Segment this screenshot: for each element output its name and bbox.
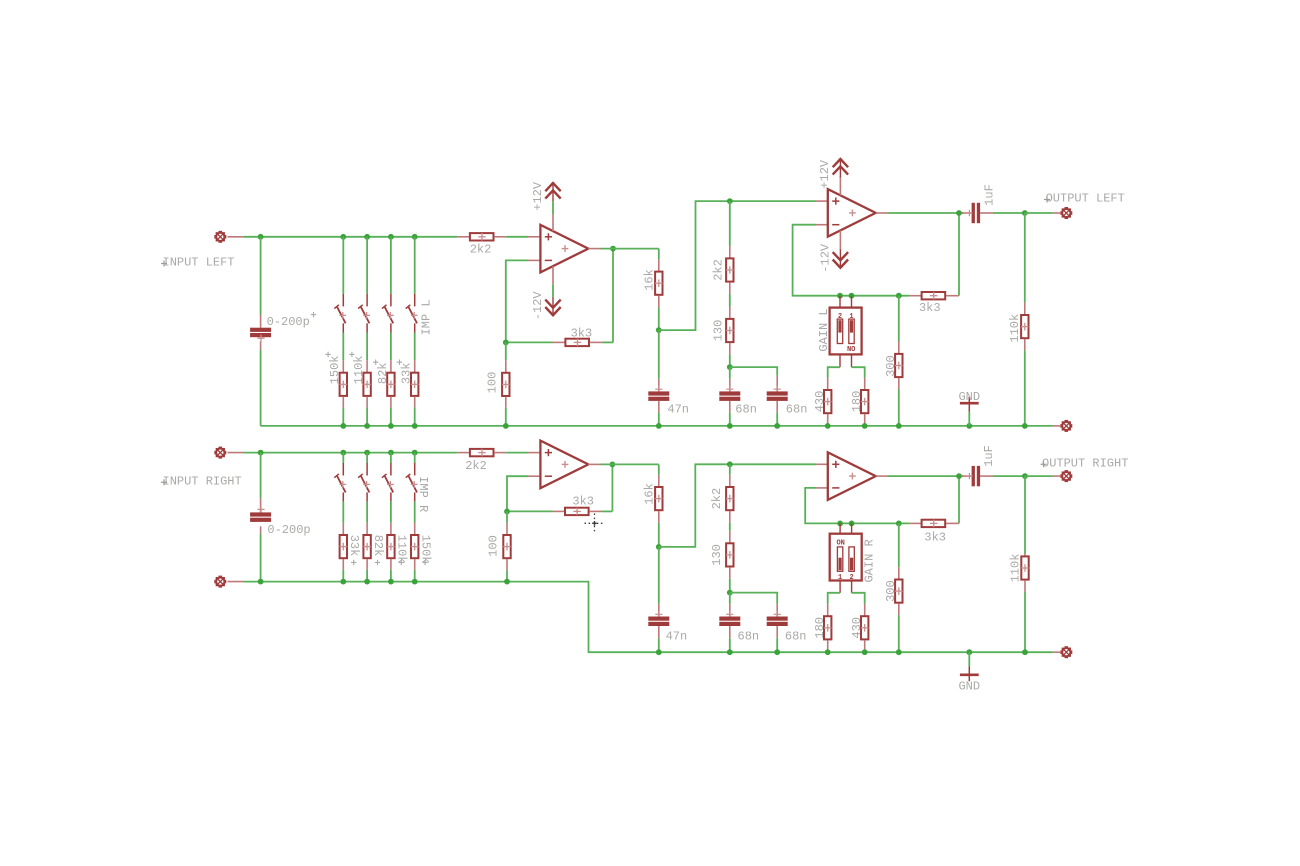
op-amp U2A (right stage 1): [528, 441, 601, 489]
svg-text:INPUT RIGHT: INPUT RIGHT: [163, 474, 242, 488]
svg-text:-12V: -12V: [531, 291, 545, 321]
svg-text:3k3: 3k3: [571, 327, 593, 341]
resistor R8 430 (left): [824, 367, 840, 426]
value 150k (IMP L): [325, 352, 342, 385]
ground symbol GND (left): [960, 397, 979, 426]
value 82k (IMP R): [371, 535, 385, 566]
wire input-left row: [244, 236, 528, 238]
junction 110k tap (right): [1022, 473, 1028, 479]
svg-text:82k: 82k: [371, 535, 385, 557]
ground terminal X3 (left): [1061, 421, 1071, 431]
svg-text:GND: GND: [958, 390, 980, 404]
junction input-right dots: [258, 450, 418, 456]
svg-text:2k2: 2k2: [465, 459, 487, 473]
value 3k3 (U2B feedback): [924, 531, 946, 545]
svg-text:3k3: 3k3: [572, 495, 594, 509]
ground terminal X7 (output right): [1061, 647, 1071, 657]
label +12V (U1A): [531, 181, 545, 211]
svg-text:68n: 68n: [735, 402, 757, 416]
svg-text:47n: 47n: [666, 630, 688, 644]
value 2k2 (right input): [465, 459, 487, 473]
wire to output terminal (left): [1025, 212, 1060, 214]
value 430 (left): [813, 391, 827, 413]
resistor R3 100 (left): [502, 342, 510, 426]
svg-text:2k2: 2k2: [710, 488, 724, 510]
-12V supply arrow (U1B): [833, 230, 848, 267]
value 100 (right): [487, 535, 501, 557]
svg-text:130: 130: [712, 320, 726, 342]
capacitor C8 68n (right): [719, 593, 740, 653]
capacitor C9 68n (right second): [730, 593, 788, 653]
svg-text:68n: 68n: [738, 630, 760, 644]
svg-text:47n: 47n: [667, 402, 689, 416]
svg-text:1uF: 1uF: [982, 184, 996, 206]
junction 2k2 tap (left): [727, 198, 733, 204]
resistor 110k (IMP R): [387, 502, 395, 582]
resistor R7 3k3 (U1B feedback): [909, 292, 959, 300]
resistor R1 2k2 (left input): [457, 233, 506, 241]
label INPUT RIGHT: [161, 474, 242, 488]
value 300 (right): [884, 580, 898, 602]
svg-text:68n: 68n: [785, 630, 807, 644]
switch S4 (IMP L pos 4): [406, 237, 418, 333]
junction input row dots: [258, 234, 418, 240]
resistor 110k (IMP L): [363, 333, 371, 426]
wire ground rail (left channel): [261, 425, 1060, 427]
input terminal X4 (INPUT RIGHT): [215, 447, 244, 457]
value 68n (left, first): [735, 402, 757, 416]
value 430 (right): [850, 617, 864, 639]
resistor R20 430 (right): [852, 593, 869, 652]
value 2k2 (left input): [470, 243, 492, 257]
capacitor C5 1uF (left output): [962, 203, 1025, 223]
output terminal X2 (OUTPUT LEFT): [1061, 208, 1071, 218]
switch S7 (IMP R pos 3): [382, 453, 394, 502]
value 16k (left): [643, 269, 657, 291]
svg-text:3k3: 3k3: [919, 301, 941, 315]
resistor R10 300 (left): [895, 296, 903, 426]
resistor R2 3k3 (U1A feedback): [553, 339, 603, 347]
svg-text:430: 430: [850, 617, 864, 639]
+12V supply arrow (U1B): [833, 159, 848, 195]
resistor R5 2k2 (left divider): [726, 201, 734, 294]
svg-text:16k: 16k: [643, 483, 657, 505]
value 180 (left): [850, 391, 864, 413]
label GAIN L: [817, 308, 831, 351]
junction output/3k3 node (left): [956, 210, 962, 216]
label -12V (U1B): [819, 243, 833, 273]
+12V supply arrow (U1A): [545, 183, 560, 231]
svg-text:82k: 82k: [376, 362, 390, 384]
junction U2B feedback dots: [837, 521, 902, 527]
junction U1B feedback dots: [837, 293, 902, 299]
op-amp U2B (right stage 2): [816, 452, 888, 500]
label OUTPUT LEFT: [1044, 192, 1125, 206]
capacitor C6 0-200p (right): [250, 453, 271, 582]
junction 68n node (left): [727, 364, 733, 370]
wire riser to U1B (left): [659, 201, 816, 330]
svg-text:IMP R: IMP R: [416, 476, 430, 512]
label GND (left): [958, 390, 980, 404]
svg-text:110k: 110k: [352, 355, 366, 384]
label +12V (U1B): [818, 159, 832, 189]
wire riser to U2B (right): [659, 464, 816, 547]
svg-text:ON: ON: [847, 343, 855, 351]
mouse crosshair cursor: [585, 514, 606, 533]
op-amp U1A (left stage 1): [528, 225, 601, 273]
resistor 33k (IMP L): [411, 333, 419, 426]
resistor 82k (IMP R): [363, 502, 371, 582]
value 2k2 (right divider): [710, 488, 724, 510]
capacitor C2 47n (left): [648, 330, 669, 426]
svg-text:33k: 33k: [400, 362, 414, 384]
resistor 82k (IMP L): [387, 333, 395, 426]
value 16k (right): [643, 483, 657, 505]
value 68n (right, first): [738, 630, 760, 644]
svg-text:2k2: 2k2: [470, 243, 492, 257]
svg-text:GAIN L: GAIN L: [817, 308, 831, 351]
svg-text:GAIN R: GAIN R: [863, 539, 877, 582]
value 82k (IMP L): [373, 360, 390, 385]
value 110k (left): [1008, 314, 1022, 343]
junction ground rail dots (right, lower): [656, 649, 1028, 655]
resistor R16 2k2 (right divider): [726, 464, 734, 522]
svg-text:430: 430: [813, 391, 827, 413]
resistor R13 3k3 (U2A feedback): [553, 508, 602, 516]
switch S8 (IMP R pos 4): [406, 453, 418, 502]
svg-text:110k: 110k: [1008, 314, 1022, 343]
svg-text:IMP L: IMP L: [420, 299, 434, 335]
svg-text:1uF: 1uF: [982, 445, 996, 467]
ground terminal X6 (input right): [215, 576, 225, 586]
value 150k (IMP R): [418, 535, 432, 566]
value 47n (left): [667, 402, 689, 416]
switch S5 (IMP R pos 1): [334, 453, 346, 502]
resistor 150k (IMP R): [411, 502, 419, 582]
resistor R4 16k (left): [655, 259, 663, 330]
junction 110k tap (left): [1022, 210, 1028, 216]
value 130 (right divider): [710, 544, 724, 566]
svg-text:180: 180: [813, 617, 827, 639]
value 33k (IMP L): [397, 360, 414, 385]
svg-text:130: 130: [710, 544, 724, 566]
value 2k2 (left divider): [712, 259, 726, 281]
capacitor C3 68n (left): [719, 367, 740, 426]
capacitor C4 68n (left second): [730, 367, 788, 426]
svg-text:300: 300: [884, 580, 898, 602]
op-amp U1B (left stage 2): [816, 189, 888, 237]
resistor R21 300 (right): [895, 523, 903, 652]
resistor 150k (IMP L): [340, 333, 348, 426]
wire U1A feedback loop: [506, 249, 613, 343]
wire U2B output row: [888, 475, 964, 477]
wire U1A output row: [601, 249, 659, 260]
wire U2A feedback loop: [507, 464, 612, 511]
svg-text:110k: 110k: [1009, 554, 1023, 583]
resistor R18 3k3 (U2B feedback): [909, 520, 959, 528]
junction ground rail dots (left): [340, 423, 1027, 429]
value 110k (right): [1009, 554, 1023, 583]
svg-text:0-200p: 0-200p: [267, 315, 310, 329]
svg-text:150k: 150k: [418, 535, 432, 564]
svg-text:180: 180: [850, 391, 864, 413]
svg-text:GND: GND: [958, 679, 980, 693]
value 3k3 (U1B feedback): [919, 301, 941, 315]
junction U1A output node: [503, 246, 616, 346]
svg-text:100: 100: [486, 372, 500, 394]
value 1uF (left): [982, 184, 996, 206]
value 100 (left): [486, 372, 500, 394]
svg-text:OUTPUT LEFT: OUTPUT LEFT: [1046, 192, 1125, 206]
dip switch GAIN R: [830, 523, 862, 592]
resistor R12 2k2 (right input): [457, 449, 506, 457]
value 180 (right): [813, 617, 827, 639]
value 33k (IMP R): [347, 535, 361, 566]
value 0-200p (right): [267, 523, 310, 537]
value 3k3 (U1A feedback): [571, 327, 593, 341]
junction output/3k3 node (right): [956, 473, 962, 479]
svg-text:INPUT LEFT: INPUT LEFT: [163, 256, 235, 270]
svg-text:+12V: +12V: [531, 181, 545, 211]
output terminal X5 (OUTPUT RIGHT): [1061, 471, 1071, 481]
wire U2B feedback loop: [805, 476, 959, 523]
value 68n (left, second): [786, 402, 808, 416]
svg-text:-12V: -12V: [819, 243, 833, 273]
switch S3 (IMP L pos 3): [382, 237, 394, 333]
value 110k (IMP L): [349, 352, 366, 385]
svg-text:+12V: +12V: [818, 159, 832, 189]
label INPUT LEFT: [161, 256, 235, 270]
value 130 (left divider): [712, 320, 726, 342]
-12V supply arrow (U1A): [545, 266, 560, 315]
svg-text:0-200p: 0-200p: [267, 523, 310, 537]
resistor R11 110k (left): [1021, 213, 1029, 426]
svg-text:100: 100: [487, 535, 501, 557]
junction 2k2 tap (right): [727, 461, 733, 467]
svg-text:2k2: 2k2: [712, 259, 726, 281]
ground symbol GND (right): [960, 652, 979, 681]
svg-text:OUTPUT RIGHT: OUTPUT RIGHT: [1042, 457, 1128, 471]
resistor R22 110k (right): [1021, 476, 1029, 652]
label GND (right): [958, 679, 980, 693]
value 300 (left): [884, 355, 898, 377]
svg-text:33k: 33k: [347, 535, 361, 557]
resistor R19 180 (right): [824, 593, 840, 652]
value 1uF (right): [982, 445, 996, 467]
value 110k (IMP R): [395, 535, 409, 566]
wire to output terminal (right): [1025, 475, 1060, 477]
svg-text:110k: 110k: [395, 535, 409, 564]
svg-text:3k3: 3k3: [924, 531, 946, 545]
junction 16k node (left): [656, 327, 662, 333]
svg-text:68n: 68n: [786, 402, 808, 416]
junction U2A nodes: [504, 462, 615, 515]
resistor 33k (IMP R): [340, 502, 348, 582]
junction ground rail dots (right, upper): [258, 579, 510, 585]
label GAIN R: [863, 539, 877, 582]
svg-text:16k: 16k: [643, 269, 657, 291]
wire U1B output row: [888, 212, 964, 214]
junction 16k node (right): [656, 544, 662, 550]
value 68n (right, second): [785, 630, 807, 644]
switch S1 (IMP L pos 1): [334, 237, 346, 333]
capacitor C10 1uF (right output): [962, 466, 1026, 486]
resistor R14 100 (right): [503, 511, 511, 581]
wire U1B feedback loop: [793, 213, 959, 296]
resistor R6 130 (left divider): [726, 294, 734, 367]
input terminal X1 (INPUT LEFT): [215, 232, 244, 242]
label IMP L: [420, 299, 434, 335]
value 47n (right): [666, 630, 688, 644]
capacitor C1 0-200p (left): [250, 237, 271, 426]
dip switch GAIN L: [830, 296, 862, 368]
label IMP R: [416, 476, 430, 512]
label OUTPUT RIGHT: [1041, 457, 1129, 471]
switch S2 (IMP L pos 2): [358, 237, 370, 333]
wire U2A output row: [601, 464, 659, 474]
resistor R15 16k (right): [655, 475, 663, 547]
value 0-200p (left): [267, 312, 317, 329]
wire input-right row: [244, 452, 528, 454]
resistor R17 130 (right divider): [726, 523, 734, 593]
junction 68n node (right): [727, 590, 733, 596]
wire ground rail (right channel): [228, 582, 1061, 653]
value 3k3 (U2A feedback): [572, 495, 594, 509]
capacitor C7 47n (right): [648, 547, 669, 652]
resistor R9 180 (left): [852, 367, 869, 426]
svg-text:300: 300: [884, 355, 898, 377]
svg-text:150k: 150k: [328, 355, 342, 384]
label -12V (U1A): [531, 291, 545, 321]
switch S6 (IMP R pos 2): [358, 453, 370, 502]
